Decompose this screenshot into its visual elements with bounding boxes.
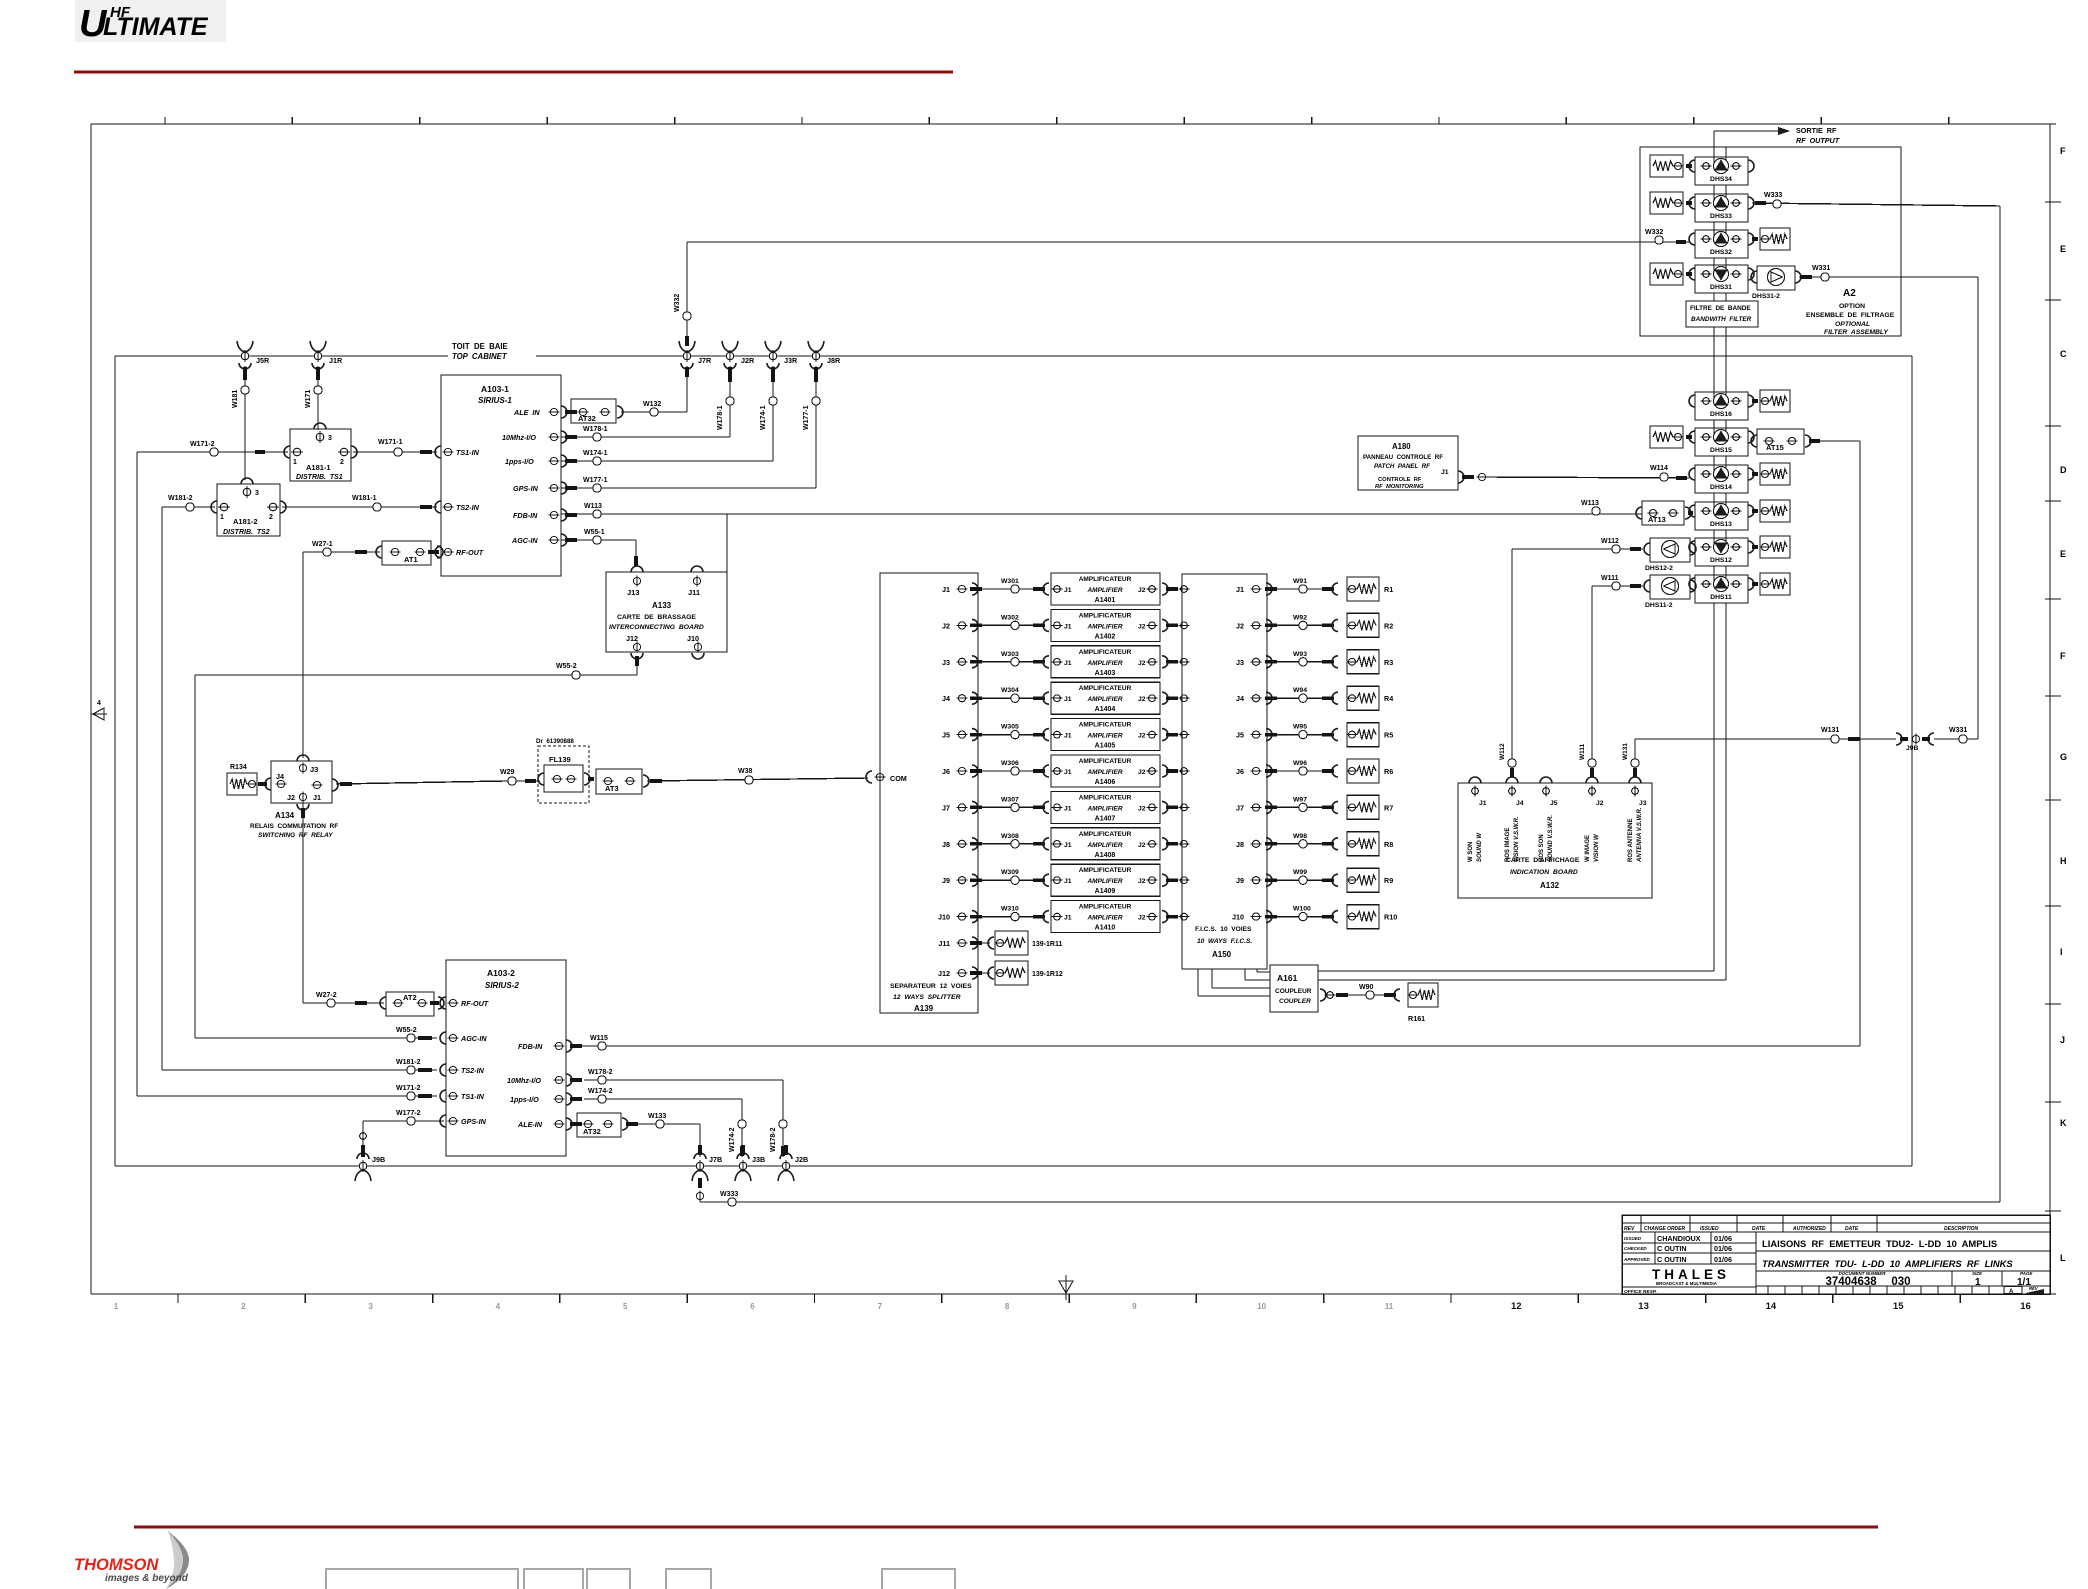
svg-text:15: 15	[1893, 1301, 1904, 1312]
resistor at DHS15	[1650, 426, 1692, 448]
svg-text:TOP CABINET: TOP CABINET	[452, 352, 508, 361]
svg-text:ENSEMBLE DE FILTRAGE: ENSEMBLE DE FILTRAGE	[1806, 312, 1895, 319]
svg-text:AMPLIFICATEUR: AMPLIFICATEUR	[1079, 649, 1132, 656]
svg-text:AGC-IN: AGC-IN	[460, 1034, 487, 1043]
svg-text:DESCRIPTION: DESCRIPTION	[1944, 1226, 1979, 1232]
amplifier A1402	[1051, 609, 1160, 641]
svg-text:J8R: J8R	[827, 356, 841, 365]
svg-text:A133: A133	[652, 601, 672, 610]
svg-text:RELAIS COMMUTATION RF: RELAIS COMMUTATION RF	[250, 823, 338, 830]
filter FL139	[536, 738, 590, 803]
svg-text:W181-2: W181-2	[396, 1059, 421, 1066]
wire W178-1	[561, 366, 734, 441]
svg-text:R3: R3	[1384, 658, 1393, 667]
svg-text:A1403: A1403	[1095, 670, 1116, 677]
svg-text:W55-1: W55-1	[584, 529, 605, 536]
bottom border centerline marker	[1059, 1275, 1073, 1300]
svg-text:A: A	[2009, 1289, 2014, 1295]
svg-text:RF-OUT: RF-OUT	[461, 999, 489, 1008]
svg-text:AMPLIFICATEUR: AMPLIFICATEUR	[1079, 758, 1132, 765]
detector DHS11-2	[1644, 575, 1696, 609]
svg-text:J12: J12	[626, 634, 638, 643]
svg-text:A1401: A1401	[1095, 597, 1116, 604]
wire W332	[674, 229, 1689, 346]
svg-text:AMPLIFIER: AMPLIFIER	[1086, 696, 1122, 703]
svg-text:DISTRIB. TS1: DISTRIB. TS1	[296, 474, 343, 481]
connector J9B	[357, 1153, 369, 1159]
wire W181	[232, 366, 249, 480]
svg-text:TS1-IN: TS1-IN	[461, 1092, 485, 1101]
wire W131	[1622, 727, 1896, 777]
svg-text:R1: R1	[1384, 585, 1393, 594]
svg-text:LTIMATE: LTIMATE	[103, 13, 209, 41]
svg-text:W94: W94	[1293, 687, 1307, 694]
wire W115	[570, 441, 1860, 1050]
wire amp A14010 output	[1162, 911, 1189, 923]
coupler DHS16	[1689, 392, 1754, 420]
svg-text:COUPLER: COUPLER	[1279, 998, 1311, 1005]
svg-text:W178-1: W178-1	[583, 426, 608, 433]
svg-text:1: 1	[114, 1302, 119, 1311]
svg-text:A103-1: A103-1	[481, 384, 509, 394]
wire W309	[970, 869, 1049, 886]
svg-text:J2R: J2R	[741, 356, 755, 365]
svg-text:W96: W96	[1293, 760, 1307, 767]
svg-text:10Mhz-I/O: 10Mhz-I/O	[502, 433, 536, 442]
svg-text:W55-2: W55-2	[396, 1027, 417, 1034]
wire amp A1409 output	[1162, 874, 1189, 886]
svg-text:J6: J6	[1236, 767, 1244, 776]
svg-text:3: 3	[328, 435, 332, 442]
svg-text:W181-1: W181-1	[352, 495, 377, 502]
svg-text:DHS13: DHS13	[1710, 521, 1732, 528]
coupler DHS34	[1689, 157, 1754, 185]
coupler DHS13	[1689, 502, 1754, 530]
svg-text:F: F	[2060, 146, 2066, 156]
svg-text:A1406: A1406	[1095, 779, 1116, 786]
svg-text:AMPLIFICATEUR: AMPLIFICATEUR	[1079, 794, 1132, 801]
svg-text:J1: J1	[1064, 915, 1072, 922]
svg-text:J8: J8	[1236, 840, 1244, 849]
svg-text:W171: W171	[305, 390, 312, 408]
svg-text:W306: W306	[1001, 760, 1019, 767]
svg-text:DHS31-2: DHS31-2	[1752, 293, 1780, 300]
resistor R3	[1347, 650, 1394, 674]
svg-text:AMPLIFIER: AMPLIFIER	[1086, 878, 1122, 885]
svg-text:W174-2: W174-2	[588, 1088, 613, 1095]
svg-text:CHANDIOUX: CHANDIOUX	[1657, 1234, 1701, 1243]
svg-text:W181-2: W181-2	[168, 495, 193, 502]
svg-text:DHS34: DHS34	[1710, 176, 1732, 183]
svg-text:DHS16: DHS16	[1710, 411, 1732, 418]
svg-text:R10: R10	[1384, 913, 1397, 922]
svg-text:R9: R9	[1384, 876, 1393, 885]
svg-text:C OUTIN: C OUTIN	[1657, 1255, 1687, 1264]
wire W178-2	[584, 1069, 787, 1157]
coupler DHS32	[1689, 230, 1754, 258]
svg-text:W99: W99	[1293, 869, 1307, 876]
svg-text:A150: A150	[1212, 950, 1232, 959]
svg-text:J2: J2	[1138, 915, 1146, 922]
connector COM	[866, 771, 907, 783]
wire amp A1403 output	[1162, 656, 1189, 668]
svg-text:FDB-IN: FDB-IN	[518, 1042, 543, 1051]
svg-text:E: E	[2060, 244, 2066, 254]
svg-text:139-1R11: 139-1R11	[1032, 941, 1062, 948]
svg-text:J1: J1	[1064, 769, 1072, 776]
svg-text:W38: W38	[738, 768, 753, 775]
svg-text:J9: J9	[942, 876, 950, 885]
wire amp A1408 output	[1162, 838, 1189, 850]
top red divider line	[74, 70, 953, 73]
wire W112	[1499, 538, 1643, 777]
connector J3B	[737, 1153, 749, 1159]
wire W306	[970, 760, 1049, 777]
distributor A181-1	[284, 423, 357, 481]
svg-text:W114: W114	[1650, 465, 1668, 472]
svg-text:W174-1: W174-1	[583, 450, 608, 457]
svg-text:SOUND V.S.W.R.: SOUND V.S.W.R.	[1548, 815, 1554, 862]
attenuator AT1	[376, 541, 443, 565]
svg-text:INTERCONNECTING BOARD: INTERCONNECTING BOARD	[609, 624, 704, 631]
svg-text:W332: W332	[674, 294, 681, 312]
resistor R1	[1347, 577, 1394, 601]
resistor at DHS31	[1650, 263, 1692, 285]
resistor R134	[227, 764, 267, 795]
svg-text:R2: R2	[1384, 621, 1393, 630]
left border centerline marker	[91, 700, 107, 720]
svg-text:J2: J2	[1138, 842, 1146, 849]
svg-text:RF-OUT: RF-OUT	[456, 548, 484, 557]
patch panel A180	[1358, 436, 1488, 490]
svg-text:REV: REV	[2029, 1286, 2039, 1291]
resistor at DHS12	[1752, 536, 1790, 558]
svg-text:W177-1: W177-1	[803, 405, 810, 430]
svg-text:W97: W97	[1293, 796, 1307, 803]
svg-text:J3: J3	[942, 658, 950, 667]
wire amp A1405 output	[1162, 729, 1189, 741]
svg-text:A1402: A1402	[1095, 633, 1116, 640]
svg-text:W132: W132	[643, 401, 661, 408]
svg-text:AGC-IN: AGC-IN	[511, 536, 538, 545]
svg-text:1: 1	[220, 514, 224, 521]
wire W171	[305, 366, 322, 430]
unit A103-1 SIRIUS-1	[435, 375, 577, 576]
svg-text:AMPLIFIER: AMPLIFIER	[1086, 915, 1122, 922]
svg-text:J1: J1	[313, 793, 321, 802]
svg-text:REV: REV	[1624, 1226, 1635, 1232]
wire W181-1	[282, 495, 437, 511]
svg-text:J2: J2	[1138, 878, 1146, 885]
svg-text:J1R: J1R	[329, 356, 343, 365]
svg-text:W174-2: W174-2	[729, 1127, 736, 1152]
svg-text:DISTRIB. TS2: DISTRIB. TS2	[223, 529, 270, 536]
connector J7B	[694, 1153, 706, 1159]
attenuator AT32 (upper)	[571, 399, 623, 423]
coupler DHS33	[1689, 194, 1754, 222]
svg-text:RF MONITORING: RF MONITORING	[1375, 484, 1424, 490]
svg-text:W171-1: W171-1	[378, 439, 403, 446]
coupler A161	[1270, 965, 1318, 1012]
svg-text:A2: A2	[1843, 288, 1856, 299]
svg-text:OPTIONAL: OPTIONAL	[1835, 321, 1870, 328]
svg-text:R161: R161	[1408, 1014, 1425, 1023]
svg-text:J: J	[2060, 1035, 2065, 1045]
svg-text:5: 5	[623, 1302, 628, 1311]
amplifier A1405	[1051, 719, 1160, 751]
wires A150 to A161	[1198, 969, 1270, 996]
resistor R5	[1347, 723, 1394, 747]
amplifier A1408	[1051, 828, 1160, 860]
resistor at DHS14	[1752, 463, 1790, 485]
resistor R8	[1347, 832, 1394, 856]
svg-text:J13: J13	[627, 588, 640, 597]
svg-text:2: 2	[340, 459, 344, 466]
svg-text:W301: W301	[1001, 578, 1019, 585]
svg-text:J7: J7	[942, 803, 950, 812]
svg-text:TS2-IN: TS2-IN	[456, 503, 480, 512]
coupler DHS31	[1689, 265, 1754, 293]
svg-text:D: D	[2060, 465, 2067, 475]
wire W333 (top)	[1752, 192, 2000, 208]
combiner A150 FICS 10 ways	[1182, 574, 1272, 969]
svg-text:AMPLIFIER: AMPLIFIER	[1086, 587, 1122, 594]
svg-text:16: 16	[2020, 1301, 2031, 1312]
connector J2B	[780, 1153, 792, 1159]
svg-text:W181: W181	[232, 390, 239, 408]
svg-text:TOIT DE BAIE: TOIT DE BAIE	[452, 342, 508, 351]
wire W181-2	[162, 495, 437, 1074]
svg-text:DHS33: DHS33	[1710, 213, 1732, 220]
svg-text:A1404: A1404	[1095, 706, 1116, 713]
wire W38	[647, 768, 868, 784]
resistor at DHS11	[1752, 573, 1790, 595]
svg-text:J1: J1	[1064, 696, 1072, 703]
svg-text:9: 9	[1132, 1302, 1137, 1311]
svg-text:W331: W331	[1949, 727, 1967, 734]
svg-text:J2: J2	[1596, 800, 1604, 807]
svg-text:W113: W113	[1581, 500, 1599, 507]
svg-text:J3B: J3B	[752, 1155, 765, 1164]
svg-text:AT13: AT13	[1648, 515, 1666, 524]
svg-text:W171-2: W171-2	[190, 441, 215, 448]
svg-text:J3: J3	[1236, 658, 1244, 667]
svg-text:SIRIUS-1: SIRIUS-1	[478, 396, 512, 405]
svg-text:AMPLIFICATEUR: AMPLIFICATEUR	[1079, 722, 1132, 729]
svg-text:J5: J5	[942, 731, 950, 740]
optional filter assembly A2 box	[1640, 147, 1901, 336]
svg-text:E: E	[2060, 549, 2066, 559]
svg-text:J2: J2	[1138, 733, 1146, 740]
amplifier A14010	[1051, 901, 1160, 933]
resistor at DHS32	[1752, 228, 1790, 250]
svg-text:W98: W98	[1293, 833, 1307, 840]
wire W55-2	[195, 656, 637, 1042]
svg-text:FDB-IN: FDB-IN	[513, 511, 538, 520]
attenuator AT3	[588, 769, 649, 794]
wire W177-1	[561, 366, 820, 492]
svg-text:DATE: DATE	[1752, 1226, 1766, 1232]
resistor at DHS33	[1650, 192, 1692, 214]
coupler DHS15	[1689, 428, 1754, 456]
svg-text:AT1: AT1	[404, 555, 418, 564]
svg-text:J11: J11	[938, 939, 950, 948]
wire W171-2	[137, 441, 437, 1100]
svg-text:W177-1: W177-1	[583, 477, 608, 484]
svg-text:DHS31: DHS31	[1710, 284, 1732, 291]
svg-text:A161: A161	[1277, 973, 1298, 983]
wire amp A1406 output	[1162, 765, 1189, 777]
svg-text:A103-2: A103-2	[487, 968, 515, 978]
attenuator AT13	[1636, 501, 1693, 525]
amplifier A1409	[1051, 864, 1160, 896]
svg-text:COM: COM	[890, 774, 907, 783]
svg-text:W131: W131	[1821, 727, 1839, 734]
svg-text:ALE IN: ALE IN	[513, 408, 540, 417]
indication board A132	[1458, 777, 1652, 898]
svg-text:A181-2: A181-2	[233, 517, 258, 526]
resistor at DHS34	[1650, 155, 1692, 177]
svg-text:J1: J1	[1441, 469, 1449, 476]
coupler DHS12	[1689, 538, 1754, 566]
svg-text:J7R: J7R	[698, 356, 712, 365]
resistor R2	[1347, 613, 1394, 637]
svg-text:A134: A134	[275, 811, 295, 820]
svg-text:10 WAYS F.I.C.S.: 10 WAYS F.I.C.S.	[1197, 938, 1252, 945]
svg-text:11: 11	[1385, 1302, 1394, 1311]
bottom window artifacts	[326, 1569, 955, 1589]
coupler DHS14	[1689, 465, 1754, 493]
wire W177-2	[360, 1110, 444, 1157]
svg-text:J3R: J3R	[784, 356, 798, 365]
svg-text:8: 8	[1005, 1302, 1010, 1311]
wire W331 (lower)	[1934, 277, 1978, 743]
wire W99	[1265, 869, 1338, 886]
svg-text:DATE: DATE	[1845, 1226, 1859, 1232]
svg-text:AMPLIFIER: AMPLIFIER	[1086, 733, 1122, 740]
resistor R10	[1347, 905, 1398, 929]
svg-text:W112: W112	[1601, 538, 1619, 545]
svg-text:AMPLIFIER: AMPLIFIER	[1086, 842, 1122, 849]
wire amp A1404 output	[1162, 692, 1189, 704]
connector J1R	[310, 341, 326, 352]
svg-text:J4: J4	[276, 772, 284, 781]
svg-text:W302: W302	[1001, 614, 1019, 621]
svg-text:J2: J2	[1138, 623, 1146, 630]
svg-text:J3: J3	[310, 765, 318, 774]
svg-text:10: 10	[1257, 1302, 1266, 1311]
bottom ruler column numbers	[114, 1301, 2031, 1312]
svg-text:AT32: AT32	[578, 414, 596, 423]
svg-text:W27-1: W27-1	[312, 541, 333, 548]
svg-text:J2: J2	[1138, 769, 1146, 776]
svg-text:AMPLIFIER: AMPLIFIER	[1086, 769, 1122, 776]
svg-text:W178-1: W178-1	[717, 405, 724, 430]
wire W331 (top)	[1799, 265, 1978, 281]
relay A134 switching RF relay	[250, 755, 338, 839]
connector J7R	[679, 341, 695, 352]
svg-text:PANNEAU CONTROLE RF: PANNEAU CONTROLE RF	[1363, 454, 1443, 461]
svg-text:R134: R134	[230, 764, 247, 771]
svg-text:DHS11: DHS11	[1710, 594, 1732, 601]
resistor 139-1R11	[970, 931, 1062, 955]
svg-text:R5: R5	[1384, 731, 1393, 740]
svg-text:ALE-IN: ALE-IN	[517, 1120, 543, 1129]
svg-text:ISSUED: ISSUED	[1624, 1236, 1642, 1241]
wire W114	[1486, 465, 1689, 481]
svg-text:W100: W100	[1293, 906, 1311, 913]
svg-text:GPS-IN: GPS-IN	[513, 484, 539, 493]
svg-text:J1: J1	[1064, 587, 1072, 594]
title block	[1622, 1215, 2050, 1295]
connector J3R	[765, 341, 781, 352]
wire W133	[638, 1113, 700, 1157]
label TOIT DE BAIE / TOP CABINET	[448, 338, 536, 362]
svg-text:J2: J2	[1138, 660, 1146, 667]
wire W90	[1320, 984, 1400, 1001]
svg-text:J2: J2	[287, 793, 295, 802]
svg-text:CHECKED: CHECKED	[1624, 1246, 1647, 1251]
svg-text:A1410: A1410	[1095, 925, 1116, 932]
svg-text:L: L	[2060, 1253, 2066, 1263]
svg-text:A139: A139	[914, 1004, 934, 1013]
svg-text:W27-2: W27-2	[316, 992, 337, 999]
svg-text:CARTE D'AFFICHAGE: CARTE D'AFFICHAGE	[1506, 857, 1580, 864]
svg-text:SIZE: SIZE	[1972, 1271, 1983, 1276]
svg-text:ROS ANTENNE: ROS ANTENNE	[1628, 819, 1634, 862]
svg-text:AMPLIFICATEUR: AMPLIFICATEUR	[1079, 576, 1132, 583]
svg-text:THALES: THALES	[1652, 1267, 1730, 1282]
svg-text:VISION V.S.W.R.: VISION V.S.W.R.	[1514, 816, 1520, 862]
svg-text:F.I.C.S. 10 VOIES: F.I.C.S. 10 VOIES	[1195, 926, 1252, 933]
amplifier A1401	[1051, 573, 1160, 605]
svg-text:J2: J2	[942, 621, 950, 630]
wire W27-2	[303, 803, 384, 1007]
svg-text:W91: W91	[1293, 578, 1307, 585]
bandwidth filter box	[1686, 301, 1758, 327]
attenuator AT15	[1751, 429, 1860, 454]
svg-text:Dr 61390888: Dr 61390888	[536, 738, 574, 745]
wire W94	[1265, 687, 1338, 704]
wire W305	[970, 724, 1049, 741]
svg-text:W93: W93	[1293, 651, 1307, 658]
svg-text:4: 4	[496, 1302, 501, 1311]
svg-text:DHS12-2: DHS12-2	[1645, 565, 1673, 572]
svg-text:4: 4	[97, 700, 101, 707]
wire W92	[1265, 614, 1338, 631]
svg-text:AT2: AT2	[403, 993, 417, 1002]
svg-text:FILTER ASSEMBLY: FILTER ASSEMBLY	[1824, 329, 1890, 336]
svg-text:3: 3	[368, 1302, 373, 1311]
svg-text:W133: W133	[648, 1113, 666, 1120]
wire W132	[621, 366, 687, 416]
wire W303	[970, 651, 1049, 668]
svg-text:ANTENNA V.S.W.R.: ANTENNA V.S.W.R.	[1637, 807, 1643, 863]
svg-text:W SON: W SON	[1468, 842, 1474, 862]
svg-text:W111: W111	[1601, 575, 1619, 582]
svg-text:J1: J1	[1064, 733, 1072, 740]
svg-text:I: I	[2060, 947, 2063, 957]
svg-text:C OUTIN: C OUTIN	[1657, 1244, 1687, 1253]
svg-text:12: 12	[1511, 1301, 1522, 1312]
resistor at DHS13	[1752, 500, 1790, 522]
wire W27-1	[303, 541, 380, 758]
svg-text:AT15: AT15	[1766, 443, 1784, 452]
wire W304	[970, 687, 1049, 704]
svg-text:2: 2	[241, 1302, 246, 1311]
coupler DHS11	[1689, 575, 1754, 603]
svg-text:J12: J12	[938, 969, 950, 978]
